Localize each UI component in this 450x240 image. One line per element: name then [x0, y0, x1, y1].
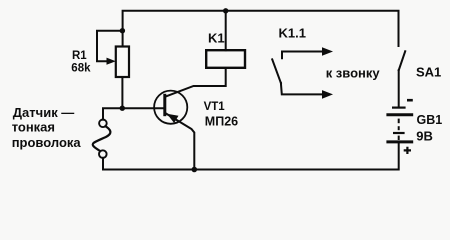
svg-text:Датчик —: Датчик — — [13, 105, 75, 120]
transistor VT1 collector — [166, 68, 226, 97]
svg-text:9В: 9В — [416, 128, 433, 143]
wire base — [103, 108, 164, 119]
battery GB1 plate long 2 — [386, 140, 413, 143]
wire relay top lead — [225, 11, 227, 50]
wire sensor bottom lead — [102, 158, 104, 170]
svg-text:тонкая: тонкая — [12, 120, 55, 135]
resistor R1 wiper arrow — [107, 58, 116, 65]
svg-text:K1: K1 — [208, 31, 225, 46]
relay K1 coil box — [206, 50, 245, 68]
transistor VT1 circle — [154, 91, 187, 124]
node junction dot R1 top loop — [120, 28, 125, 33]
wire R1 bottom lead — [121, 77, 123, 108]
battery GB1 plus sign — [404, 147, 411, 154]
svg-text:МП26: МП26 — [205, 115, 238, 129]
wire R1 wiper loop — [97, 31, 122, 62]
wire top rail — [123, 11, 399, 47]
contact K1.1 upper arrow — [282, 52, 324, 59]
svg-text:68k: 68k — [71, 62, 91, 74]
battery GB1 plate short 1 — [392, 106, 406, 108]
node junction dot emitter / bottom rail — [192, 167, 198, 173]
battery GB1 plate short 2 — [393, 132, 405, 134]
transistor VT1 base bar — [163, 95, 166, 114]
svg-text:R1: R1 — [72, 50, 87, 62]
transistor VT1 emitter arrow (PNP) — [167, 114, 179, 123]
sensor terminal top — [99, 120, 107, 128]
battery GB1 plate long 1 — [386, 113, 413, 116]
battery GB1 link plate2 — [398, 136, 400, 140]
node junction dot top rail / relay — [223, 8, 228, 13]
contact K1.1 lower arrow — [281, 83, 324, 94]
sensor terminal bottom — [99, 150, 107, 158]
transistor VT1 emitter — [166, 113, 195, 169]
wire bottom rail — [103, 169, 399, 171]
svg-text:VT1: VT1 — [204, 101, 226, 113]
resistor R1 (potentiometer body) — [116, 47, 129, 78]
svg-text:K1.1: K1.1 — [279, 25, 306, 40]
svg-text:проволока: проволока — [12, 135, 82, 150]
contact K1.1 blade — [272, 59, 281, 83]
battery GB1 dashed link — [398, 119, 400, 124]
svg-text:SA1: SA1 — [416, 64, 441, 79]
wire battery bottom lead — [398, 142, 400, 170]
sensor thin wire — [93, 126, 111, 151]
svg-text:к звонку: к звонку — [326, 66, 381, 81]
switch SA1 blade — [399, 51, 406, 70]
node junction dot base wire — [120, 106, 125, 111]
wire SA1 to battery — [398, 70, 400, 107]
svg-text:GB1: GB1 — [417, 113, 443, 127]
battery GB1 minus sign — [407, 99, 413, 102]
